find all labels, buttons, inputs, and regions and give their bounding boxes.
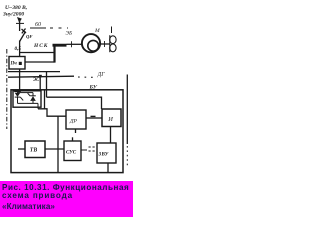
wire PM down (19, 69, 21, 90)
thyristor VS1 (14, 91, 23, 104)
wire SU to ZVI stubs (81, 147, 97, 151)
wire ZVI down (107, 163, 109, 173)
shaft tick (71, 41, 73, 47)
wire DR to I (86, 117, 102, 119)
svg-text:60: 60 (35, 22, 41, 28)
wire right riser dotted (126, 146, 128, 168)
wire PM to brake (25, 61, 55, 63)
svg-text:ДГ: ДГ (97, 72, 106, 78)
svg-text:ЭС: ЭС (33, 78, 40, 83)
left dashed boundary (6, 49, 8, 129)
wire staircase (38, 109, 66, 116)
node on bus B (39, 75, 42, 78)
wire supply vertical (19, 21, 21, 31)
shaft to fan (101, 43, 111, 45)
wire brake drop (53, 46, 55, 63)
bus line A (8, 71, 60, 73)
wire I to ZVI (110, 127, 112, 144)
breaker QF (20, 29, 26, 42)
reactor DR box (66, 110, 86, 129)
svg-text:ЗВУ: ЗВУ (98, 153, 109, 158)
brake EB bar (53, 44, 67, 47)
svg-text:U~380 В,: U~380 В, (5, 5, 27, 11)
supply arrow (16, 17, 24, 23)
shaft to motor (67, 43, 83, 45)
bus line B (8, 76, 74, 77)
block I box (102, 109, 121, 127)
motor M inner (88, 40, 99, 51)
fan (110, 35, 116, 52)
contactor PM box (9, 57, 25, 70)
caption (0, 181, 133, 217)
wire DR bottom stub (75, 129, 77, 133)
svg-text:Зну/2000: Зну/2000 (2, 11, 24, 17)
svg-text:QF: QF (26, 34, 32, 39)
wire to brake (20, 52, 55, 54)
svg-text:ЭБ: ЭБ (66, 31, 74, 37)
wire SU top stub (72, 137, 74, 141)
wire bus B drop (39, 76, 41, 90)
wire bridge over (47, 97, 102, 109)
supply label U=380V (2, 5, 27, 17)
motor M outer (82, 34, 100, 52)
wire bus A drop long (46, 72, 48, 98)
svg-text:ДР: ДР (69, 118, 78, 124)
wire right riser (126, 75, 128, 145)
thyristor internal wires (18, 93, 39, 109)
block ZVI box (97, 143, 116, 163)
svg-text:0,5: 0,5 (15, 46, 22, 52)
svg-text:БУ: БУ (89, 85, 98, 91)
block TV box (25, 141, 45, 158)
svg-text:Пч: Пч (10, 62, 18, 67)
wire long vertical (57, 116, 59, 172)
wire stub V1 (44, 90, 46, 109)
node junction (91, 115, 96, 117)
block SU box (64, 141, 81, 161)
thyristor module box (13, 91, 41, 107)
svg-text:И: И (107, 116, 113, 123)
svg-text:НСК: НСК (33, 43, 48, 49)
svg-text:ТВ: ТВ (30, 148, 38, 154)
wire TV stub left (18, 148, 25, 150)
thyristor VS2 (28, 93, 36, 104)
control unit BU box (11, 90, 123, 173)
dash enclosure top (30, 27, 112, 34)
svg-text:М: М (94, 28, 100, 34)
wire TV to SU (45, 148, 64, 150)
fan tick (104, 41, 106, 47)
wire below breaker (19, 41, 21, 58)
svg-text:СУС: СУС (66, 151, 77, 156)
mech link dots (78, 76, 94, 78)
